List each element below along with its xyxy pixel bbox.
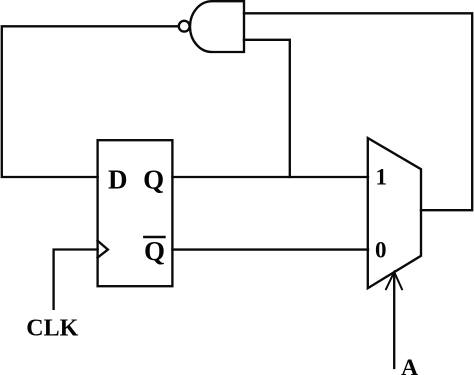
wire Qbar output to mux input 0 — [172, 248, 368, 250]
wire Q output to mux input 1 — [172, 176, 368, 178]
svg-text:1: 1 — [375, 165, 387, 190]
Qbar overline — [144, 236, 164, 239]
svg-text:A: A — [401, 355, 418, 375]
select arrow A shaft — [393, 273, 395, 368]
nand gate U1 — [190, 1, 244, 52]
nand gate U1 output bubble — [179, 21, 190, 32]
svg-text:CLK: CLK — [26, 316, 78, 342]
wire mux output to nand top input — [244, 13, 472, 210]
svg-text:Q: Q — [143, 164, 164, 194]
svg-text:D: D — [108, 164, 128, 194]
svg-text:0: 0 — [375, 238, 387, 263]
svg-text:Q: Q — [144, 236, 165, 266]
clock input triangle — [98, 241, 108, 258]
select arrow A head — [386, 272, 402, 289]
wire CLK to clock pin — [54, 250, 98, 309]
d flip-flop U2 — [98, 140, 173, 286]
mux U3 — [368, 138, 421, 288]
wire nand bottom input to Q net — [244, 40, 290, 177]
wire nand output to D input — [2, 26, 179, 177]
